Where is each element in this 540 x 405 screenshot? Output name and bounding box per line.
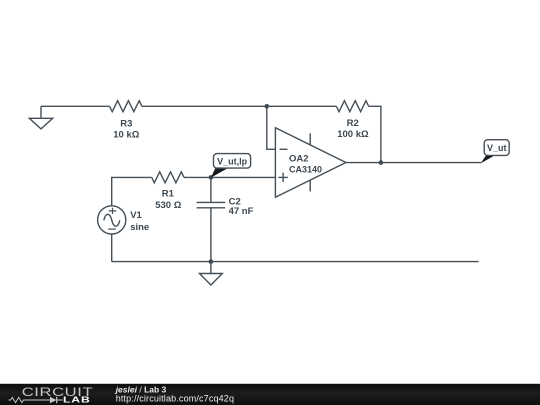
wire (V1 top to R1)	[112, 177, 152, 205]
capacitor C2	[197, 177, 254, 261]
wire (ground to R3)	[41, 105, 110, 107]
node flag V_ut,lp	[211, 154, 251, 178]
svg-text:http://circuitlab.com/c7cq42q: http://circuitlab.com/c7cq42q	[116, 393, 234, 403]
svg-text:R2: R2	[347, 118, 359, 129]
svg-text:47 nF: 47 nF	[229, 206, 254, 217]
wire (R3 to node A)	[142, 105, 267, 107]
svg-text:sine: sine	[130, 222, 149, 233]
svg-text:V1: V1	[130, 210, 142, 221]
wire (node C to op-amp non-inverting input)	[211, 176, 276, 178]
wire (node A to R2)	[267, 105, 337, 107]
svg-text:R1: R1	[162, 189, 175, 200]
wire (bottom rail)	[112, 261, 479, 263]
node A junction	[265, 104, 270, 109]
resistor R2	[336, 101, 369, 140]
svg-text:CA3140: CA3140	[289, 165, 322, 175]
svg-text:100 kΩ: 100 kΩ	[337, 129, 369, 140]
wire (R1 to node C)	[184, 176, 211, 178]
op-amp OA2	[275, 128, 346, 198]
node D junction	[209, 259, 214, 264]
wire (R2 down to output node B)	[369, 106, 381, 162]
footer bar	[0, 384, 540, 405]
svg-text:530 Ω: 530 Ω	[155, 200, 181, 211]
wire (V1 bottom to bottom rail)	[111, 234, 113, 261]
ground (bottom)	[200, 262, 223, 285]
svg-text:OA2: OA2	[289, 154, 309, 165]
resistor R3	[110, 101, 142, 141]
svg-text:V_ut,lp: V_ut,lp	[217, 157, 248, 167]
voltage source V1	[98, 206, 150, 234]
ground (top left)	[29, 106, 52, 129]
node flag V_ut	[481, 140, 510, 164]
node C junction	[209, 175, 214, 180]
wire (op-amp output to flag V_ut)	[346, 162, 481, 164]
resistor R1	[152, 172, 184, 211]
svg-text:LAB: LAB	[63, 396, 91, 405]
svg-text:10 kΩ: 10 kΩ	[113, 130, 139, 141]
svg-text:V_ut: V_ut	[487, 143, 507, 153]
logo schematic glyph (resistor + diode)	[9, 397, 63, 403]
svg-text:R3: R3	[120, 118, 132, 129]
node B junction	[379, 160, 384, 165]
wire (node A down to op-amp inverting input)	[267, 106, 276, 149]
